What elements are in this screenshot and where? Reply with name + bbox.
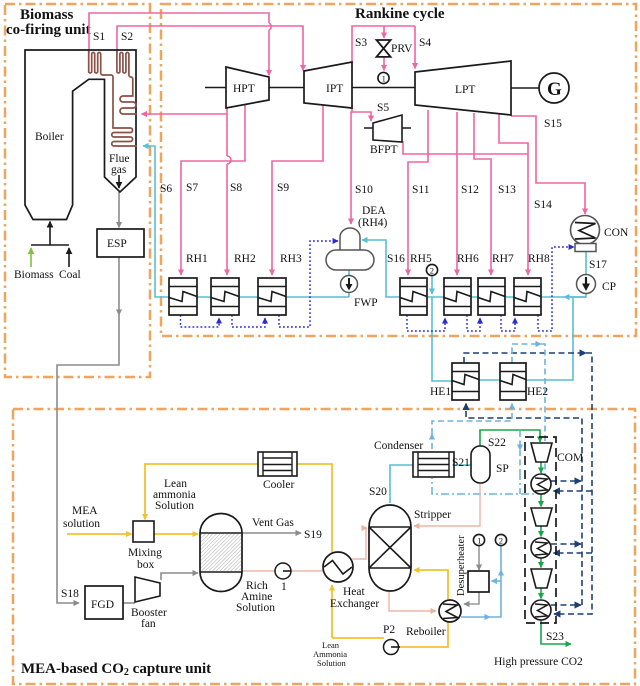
wire S10 IPT to DEA (pink) bbox=[351, 105, 352, 224]
wire biomass feed (light green) bbox=[30, 248, 32, 267]
booster fan bbox=[135, 577, 160, 602]
valve PRV bbox=[377, 40, 391, 57]
svg-text:Solution: Solution bbox=[317, 658, 347, 668]
svg-text:S16: S16 bbox=[387, 253, 405, 265]
label HE2 bbox=[527, 386, 548, 398]
wire S3 riser and PRV header (pink) bbox=[352, 26, 415, 63]
svg-text:(RH4): (RH4) bbox=[358, 217, 388, 229]
svg-text:S2: S2 bbox=[121, 31, 133, 43]
svg-text:FWP: FWP bbox=[354, 297, 378, 309]
wire S22 branch down (sky dashed) bbox=[519, 431, 521, 472]
label RH2 bbox=[234, 253, 256, 265]
label pump 1 bbox=[281, 581, 287, 593]
wire drain cascade RH8 to condenser hotwell (royal dotted) bbox=[538, 247, 574, 331]
label Lean ammonia Solution (upper) bbox=[153, 478, 196, 512]
svg-text:1: 1 bbox=[477, 535, 481, 545]
wire HE return riser to HE1 (navy dashed) bbox=[466, 404, 582, 606]
wire HE supply branch to intercooler 2 (navy dashed) bbox=[554, 552, 593, 554]
svg-text:S15: S15 bbox=[544, 118, 562, 130]
pump CP bbox=[577, 275, 596, 294]
wire S8 HPT to RH2 (pink) bbox=[227, 114, 231, 275]
feedwater heater RH1 bbox=[169, 278, 197, 315]
label SP bbox=[496, 463, 509, 475]
node S16 bbox=[387, 253, 405, 265]
svg-text:S21: S21 bbox=[452, 457, 470, 469]
feedwater heater RH6 bbox=[444, 278, 471, 315]
wire compressor chain 3 (green) bbox=[540, 526, 542, 537]
svg-text:Heat: Heat bbox=[343, 586, 366, 598]
svg-text:BFPT: BFPT bbox=[370, 144, 398, 156]
label DEA (RH4) bbox=[358, 205, 388, 229]
node S18 bbox=[61, 588, 79, 600]
generator G bbox=[539, 73, 569, 103]
wire reboiler condensate riser (sky) bbox=[461, 546, 501, 617]
title Biomass co-firing unit bbox=[6, 7, 91, 38]
label BFPT bbox=[370, 144, 398, 156]
label Booster fan bbox=[131, 607, 167, 630]
heat exchanger HE1 bbox=[452, 363, 479, 400]
wire reflux loop (sky dash-dot) bbox=[432, 472, 545, 494]
wire drain cascade RH5-RH6 (royal dotted) bbox=[407, 315, 445, 331]
svg-text:gas: gas bbox=[111, 164, 127, 176]
svg-text:Condenser: Condenser bbox=[374, 440, 423, 452]
svg-text:PRV: PRV bbox=[391, 43, 413, 55]
wire feedwater branch to HE1 (turquoise) bbox=[432, 297, 452, 381]
node S20 bbox=[369, 486, 387, 498]
turbine BFPT bbox=[373, 115, 402, 142]
svg-text:S12: S12 bbox=[461, 184, 479, 196]
label Mixing box bbox=[128, 547, 162, 571]
svg-text:S3: S3 bbox=[355, 37, 367, 49]
wire S22 SP to compressor (green) bbox=[480, 430, 540, 446]
wire HE1 to HE2 (turquoise) bbox=[479, 379, 500, 381]
node S11 bbox=[412, 184, 430, 196]
wire S23 high pressure CO2 out (green) bbox=[541, 620, 571, 644]
boundary: Biomass co-firing unit box bbox=[5, 4, 150, 377]
label Condenser bbox=[374, 440, 423, 452]
wire cold reheat HPT to boiler coil (pink) bbox=[142, 108, 228, 114]
label RH7 bbox=[492, 253, 514, 265]
label Desuperheater (vertical) bbox=[456, 535, 467, 596]
svg-text:1: 1 bbox=[281, 581, 287, 593]
wire S5 to BFPT (pink) bbox=[352, 112, 371, 121]
wire flue gas to ESP (gray) bbox=[118, 192, 120, 228]
svg-text:S8: S8 bbox=[230, 182, 242, 194]
turbine LPT bbox=[415, 61, 511, 115]
wire S21 condenser to SP (turquoise) bbox=[454, 464, 471, 466]
svg-text:S1: S1 bbox=[93, 31, 105, 43]
shaft HPT left stub bbox=[205, 87, 226, 89]
wire stripper condenser vapor to HE2 (sky dashed) bbox=[432, 404, 512, 450]
turbine HPT bbox=[226, 67, 269, 108]
svg-text:Reboiler: Reboiler bbox=[406, 626, 446, 638]
wire compressor chain 4 (green) bbox=[540, 558, 542, 568]
svg-text:Rankine cycle: Rankine cycle bbox=[355, 6, 445, 22]
svg-text:Solution: Solution bbox=[155, 500, 194, 512]
label RH5 bbox=[410, 253, 432, 265]
reboiler bbox=[439, 600, 461, 622]
wire S20 condenser to stripper (turquoise) bbox=[390, 465, 413, 503]
wire feedwater main CP to DEA (turquoise) bbox=[362, 240, 586, 297]
label RH6 bbox=[457, 253, 479, 265]
svg-text:Biomass: Biomass bbox=[14, 269, 54, 281]
wire compressor chain 1 (green) bbox=[540, 462, 542, 473]
label Flue gas bbox=[109, 153, 129, 176]
heat exchanger HE2 bbox=[500, 363, 526, 400]
svg-text:Biomass: Biomass bbox=[20, 7, 74, 23]
cooler bbox=[258, 452, 297, 476]
wire S1 steam main to HPT (pink) bbox=[89, 13, 271, 76]
feedwater heater RH2 bbox=[211, 278, 239, 315]
wire stripper bottoms to reboiler (salmon) bbox=[389, 592, 436, 611]
wire S11 LPT to RH5 (pink) bbox=[408, 110, 428, 275]
desuperheater box bbox=[468, 571, 489, 592]
wire PRV outlet to connector 1 (pink) bbox=[383, 55, 385, 71]
svg-text:HPT: HPT bbox=[233, 83, 255, 95]
svg-text:RH8: RH8 bbox=[528, 253, 550, 265]
svg-text:Solution: Solution bbox=[236, 602, 275, 614]
svg-text:RH1: RH1 bbox=[186, 253, 208, 265]
svg-text:RH5: RH5 bbox=[410, 253, 432, 265]
svg-text:P2: P2 bbox=[383, 624, 395, 636]
svg-text:Vent Gas: Vent Gas bbox=[252, 517, 294, 529]
label High pressure CO2 bbox=[494, 656, 583, 668]
wire S17 condenser to CP (turquoise) bbox=[585, 251, 587, 275]
node S8 bbox=[230, 182, 242, 194]
svg-text:RH6: RH6 bbox=[457, 253, 479, 265]
label RH1 bbox=[186, 253, 208, 265]
wire booster fan to absorber (gray) bbox=[161, 573, 198, 580]
absorber column bbox=[200, 514, 242, 592]
compressor stage 3 bbox=[531, 569, 552, 588]
connector circle 2 (capture) bbox=[495, 534, 506, 545]
svg-text:Desuperheater: Desuperheater bbox=[456, 535, 467, 596]
svg-text:S20: S20 bbox=[369, 486, 387, 498]
svg-text:S19: S19 bbox=[304, 529, 322, 541]
wire HE supply loop top (navy dashed) bbox=[464, 353, 592, 614]
svg-text:S13: S13 bbox=[498, 184, 516, 196]
svg-text:S18: S18 bbox=[61, 588, 79, 600]
node S4 bbox=[419, 37, 431, 49]
shaft HPT-IPT bbox=[269, 87, 304, 89]
FGD bbox=[85, 586, 123, 619]
label Cooler bbox=[263, 479, 294, 491]
svg-text:HE1: HE1 bbox=[430, 386, 451, 398]
svg-text:solution: solution bbox=[63, 518, 100, 530]
wire vent gas S19 (gray) bbox=[242, 532, 301, 534]
label COM bbox=[557, 452, 583, 464]
label MEA solution bbox=[63, 505, 100, 530]
pump FWP bbox=[341, 276, 358, 293]
label Biomass bbox=[14, 269, 54, 281]
boiler reheater coil S2 (brown) bbox=[117, 51, 137, 114]
label Lean Ammonia Solution (lower) bbox=[313, 640, 347, 668]
condenser (capture) bbox=[413, 452, 454, 477]
svg-text:co-firing unit: co-firing unit bbox=[6, 22, 91, 38]
intercooler 1 bbox=[531, 474, 551, 494]
feedwater heater RH3 bbox=[258, 278, 286, 315]
wire drain cascade RH6-RH7 (royal dotted) bbox=[467, 315, 480, 331]
label Boiler bbox=[35, 131, 64, 143]
label P2 bbox=[383, 624, 395, 636]
pump 1 (rich amine) bbox=[275, 563, 291, 579]
node S10 bbox=[355, 184, 373, 196]
wire drain cascade RH7-RH8 (royal dotted) bbox=[501, 315, 515, 331]
svg-text:DEA: DEA bbox=[362, 205, 386, 217]
svg-text:COM: COM bbox=[557, 452, 583, 464]
wire P2 to HX (yellow) bbox=[332, 585, 448, 647]
wire intercooler 2 return (navy dashed) bbox=[551, 543, 581, 545]
label FWP bbox=[354, 297, 378, 309]
svg-text:box: box bbox=[137, 559, 155, 571]
node S6 bbox=[160, 183, 172, 195]
node S13 bbox=[498, 184, 516, 196]
node S15 bbox=[544, 118, 562, 130]
svg-text:CP: CP bbox=[602, 281, 616, 293]
svg-text:HE2: HE2 bbox=[527, 386, 548, 398]
wire S2 hot reheat to IPT (pink) bbox=[117, 26, 303, 71]
heat exchanger (cross HX) bbox=[323, 552, 353, 582]
svg-text:IPT: IPT bbox=[326, 83, 343, 95]
connector circle 1 (Rankine) bbox=[378, 72, 389, 83]
wire S4 to LPT (pink) bbox=[414, 26, 416, 69]
wire intercooler 3 return (navy dashed) bbox=[551, 604, 581, 606]
node S22 bbox=[488, 437, 506, 449]
wire FGD to booster fan (gray) bbox=[123, 602, 135, 604]
svg-text:Stripper: Stripper bbox=[414, 509, 451, 521]
turbine IPT bbox=[304, 62, 352, 108]
label RH3 bbox=[280, 253, 302, 265]
svg-text:G: G bbox=[547, 79, 562, 100]
node S17 bbox=[589, 259, 607, 271]
svg-text:Mixing: Mixing bbox=[128, 547, 162, 559]
wire S14 LPT to RH8 (pink) bbox=[499, 114, 528, 275]
wire HE supply branch to intercooler 1 (navy dashed) bbox=[554, 490, 593, 492]
wire drain cascade RH3 to DEA (royal dotted) bbox=[279, 241, 338, 327]
COM dashed enclosure (black dashed) bbox=[525, 437, 556, 623]
title MEA-based CO2 capture unit bbox=[21, 661, 211, 678]
wire SP liquid return to stripper (salmon) bbox=[414, 483, 480, 526]
svg-text:Boiler: Boiler bbox=[35, 131, 64, 143]
svg-text:RH2: RH2 bbox=[234, 253, 256, 265]
svg-text:S10: S10 bbox=[355, 184, 373, 196]
node S14 bbox=[534, 199, 552, 211]
wire BFPT exhaust to S14 (pink) bbox=[402, 142, 528, 154]
boundary: Rankine cycle box bbox=[161, 4, 636, 336]
wire condensate branch to desuperheater (sky) bbox=[492, 580, 502, 582]
intercooler 3 bbox=[531, 600, 551, 620]
mixing box bbox=[133, 521, 154, 542]
svg-text:SP: SP bbox=[496, 463, 509, 475]
wire cooler to mixing box (yellow) bbox=[145, 464, 258, 520]
label Heat Exchanger bbox=[330, 586, 379, 610]
shaft BFPT stubs bbox=[364, 127, 411, 129]
svg-text:FGD: FGD bbox=[91, 599, 114, 611]
svg-text:LPT: LPT bbox=[455, 84, 475, 96]
node S9 bbox=[277, 182, 289, 194]
node S3 bbox=[355, 37, 367, 49]
label Stripper bbox=[414, 509, 451, 521]
label Reboiler bbox=[406, 626, 446, 638]
wire rich amine HX to stripper (salmon) bbox=[352, 528, 367, 559]
label Rich Amine Solution bbox=[236, 580, 275, 614]
wire fuel header to boiler (black) bbox=[31, 222, 69, 246]
wire lean solution HX to cooler (yellow) bbox=[297, 464, 332, 552]
wire connector 1 to desuperheater (gray) bbox=[478, 546, 480, 570]
node S5 bbox=[377, 102, 389, 114]
svg-text:S5: S5 bbox=[377, 102, 389, 114]
svg-text:RH7: RH7 bbox=[492, 253, 514, 265]
svg-text:High pressure CO2: High pressure CO2 bbox=[494, 656, 583, 668]
boiler superheater coil S1 (brown) bbox=[89, 51, 137, 146]
wire flue gas duct arrow (black) bbox=[118, 175, 120, 188]
svg-text:S4: S4 bbox=[419, 37, 431, 49]
wire drain cascade RH1-RH2 (royal dotted) bbox=[181, 315, 220, 327]
pump P2 bbox=[384, 640, 401, 655]
wire PRV inlet arrow (pink) bbox=[383, 26, 385, 38]
node S19 bbox=[304, 529, 322, 541]
svg-text:S7: S7 bbox=[186, 182, 198, 194]
shaft LPT-G bbox=[511, 87, 539, 89]
wire HE2 top loop (sky dashed) bbox=[512, 344, 545, 494]
label CP bbox=[602, 281, 616, 293]
svg-text:S11: S11 bbox=[412, 184, 430, 196]
wire intercooler 1 return (navy dashed) bbox=[551, 480, 581, 482]
label RH8 bbox=[528, 253, 550, 265]
wire HE2 return riser (turquoise) bbox=[525, 297, 573, 380]
condenser CON bbox=[571, 216, 600, 252]
wire S12 LPT to RH6 (pink) bbox=[456, 112, 458, 275]
label HE1 bbox=[430, 386, 451, 398]
deaerator DEA RH4 bbox=[326, 228, 374, 270]
svg-text:1: 1 bbox=[382, 73, 386, 83]
wire S15 LPT to condenser (pink) bbox=[511, 116, 585, 214]
svg-text:MEA-based CO2 capture unit: MEA-based CO2 capture unit bbox=[21, 661, 211, 678]
svg-text:Exchanger: Exchanger bbox=[330, 598, 379, 610]
boiler bbox=[25, 50, 136, 220]
wire connector 2 stub to feedwater (turquoise) bbox=[431, 276, 433, 294]
svg-text:RH3: RH3 bbox=[280, 253, 302, 265]
feedwater heater RH7 bbox=[478, 278, 505, 315]
svg-text:fan: fan bbox=[141, 618, 156, 630]
wire S9 IPT to RH3 (pink) bbox=[272, 101, 323, 275]
wire mixing box to absorber (yellow) bbox=[154, 533, 198, 535]
wire MEA solution feed (yellow) bbox=[67, 533, 132, 535]
node S2 bbox=[121, 31, 133, 43]
wire rich amine absorber to pump 1 to HX (salmon) bbox=[242, 570, 324, 572]
wire S7 HPT to RH1 (pink) bbox=[181, 103, 245, 275]
label Vent Gas bbox=[252, 517, 294, 529]
wire desuperheater to reboiler (gray) bbox=[464, 592, 479, 604]
wire compressor chain 2 (green) bbox=[540, 494, 542, 507]
svg-text:S14: S14 bbox=[534, 199, 552, 211]
svg-text:CON: CON bbox=[604, 227, 629, 239]
wire drain cascade RH2-RH3 (royal dotted) bbox=[232, 315, 265, 327]
connector circle 1 (capture) bbox=[473, 534, 484, 545]
compressor stage 1 bbox=[531, 443, 552, 462]
compressor stage 2 bbox=[531, 508, 552, 526]
separator SP bbox=[471, 446, 490, 483]
node S7 bbox=[186, 182, 198, 194]
label CON bbox=[604, 227, 629, 239]
svg-text:2: 2 bbox=[499, 535, 503, 545]
wire compressor chain 5 (green) bbox=[540, 588, 542, 599]
svg-text:S9: S9 bbox=[277, 182, 289, 194]
wire ESP to FGD (gray) bbox=[57, 257, 119, 603]
boundary: MEA capture unit box bbox=[13, 409, 635, 684]
label Coal bbox=[59, 269, 81, 281]
wire S13 LPT to RH7 (pink) bbox=[474, 113, 491, 275]
node S23 bbox=[546, 631, 564, 643]
svg-text:S22: S22 bbox=[488, 437, 506, 449]
svg-text:MEA: MEA bbox=[72, 505, 98, 517]
shaft IPT-LPT bbox=[352, 87, 415, 89]
title Rankine cycle bbox=[355, 6, 445, 22]
svg-text:2: 2 bbox=[430, 265, 434, 275]
svg-text:S23: S23 bbox=[546, 631, 564, 643]
node S21 bbox=[452, 457, 470, 469]
svg-text:ESP: ESP bbox=[107, 238, 127, 250]
intercooler 2 bbox=[531, 538, 551, 558]
svg-text:S17: S17 bbox=[589, 259, 607, 271]
svg-text:Cooler: Cooler bbox=[263, 479, 294, 491]
node S1 bbox=[93, 31, 105, 43]
node S12 bbox=[461, 184, 479, 196]
svg-text:Coal: Coal bbox=[59, 269, 81, 281]
feedwater heater RH8 bbox=[514, 278, 541, 315]
ESP bbox=[97, 229, 144, 257]
wire reboiler vapor to stripper (yellow) bbox=[414, 570, 448, 599]
connector circle 2 (Rankine) bbox=[426, 264, 437, 275]
label PRV bbox=[391, 43, 413, 55]
wire coal feed (black) bbox=[68, 248, 70, 267]
stripper column bbox=[369, 505, 411, 591]
wire DEA to FWP to RH1 line (turquoise) bbox=[143, 146, 349, 297]
svg-text:S6: S6 bbox=[160, 183, 172, 195]
feedwater heater RH5 bbox=[400, 278, 427, 315]
